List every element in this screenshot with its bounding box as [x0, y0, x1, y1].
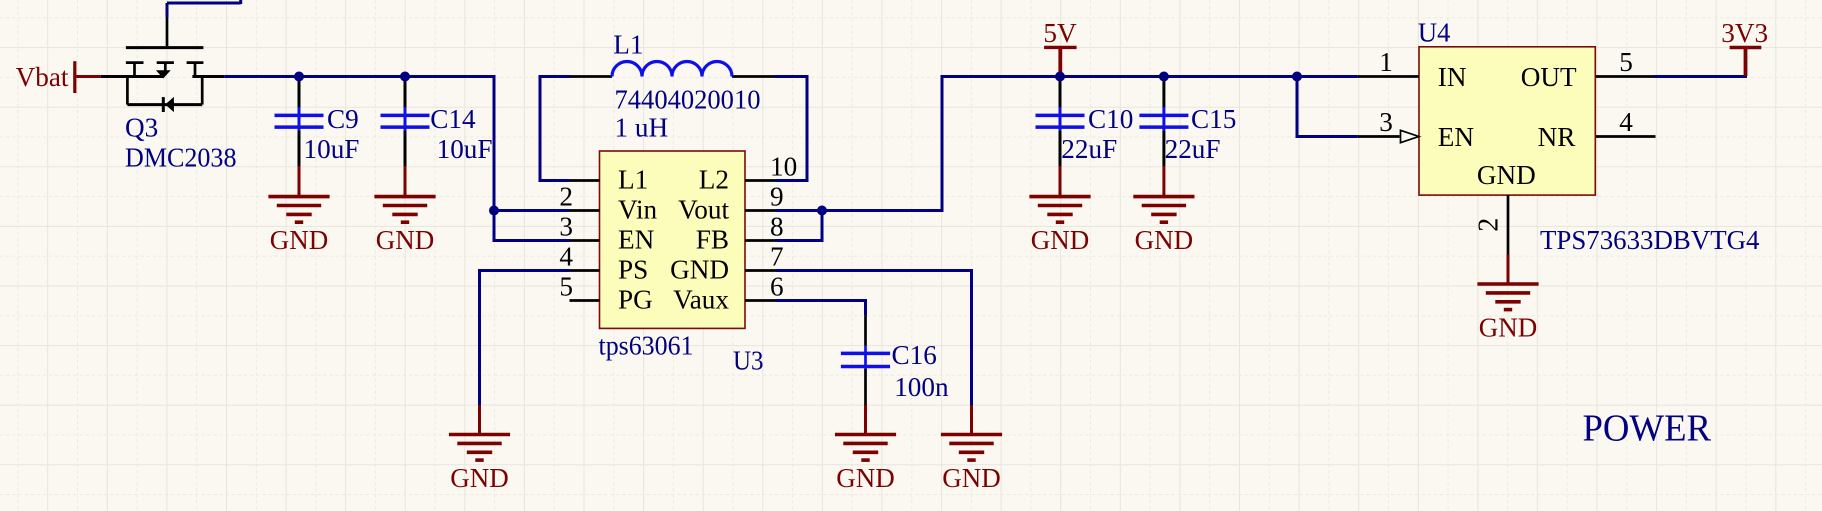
svg-text:5: 5 [1619, 47, 1633, 77]
svg-text:POWER: POWER [1583, 407, 1712, 449]
svg-text:GND: GND [942, 463, 1001, 493]
svg-text:NR: NR [1538, 122, 1577, 152]
svg-text:10uF: 10uF [304, 134, 360, 164]
svg-text:GND: GND [670, 255, 729, 285]
svg-text:C14: C14 [430, 104, 476, 134]
svg-text:3: 3 [559, 212, 573, 242]
svg-text:U4: U4 [1418, 17, 1451, 48]
svg-text:Vbat: Vbat [16, 62, 69, 92]
svg-text:Vin: Vin [618, 195, 658, 225]
svg-text:EN: EN [618, 225, 655, 255]
svg-text:8: 8 [770, 212, 784, 242]
svg-text:4: 4 [559, 242, 573, 272]
svg-text:4: 4 [1619, 107, 1633, 137]
svg-text:TPS73633DBVTG4: TPS73633DBVTG4 [1540, 225, 1760, 255]
svg-text:6: 6 [770, 272, 784, 302]
svg-text:7: 7 [770, 242, 784, 272]
svg-text:1: 1 [1379, 47, 1393, 77]
svg-text:3: 3 [1379, 107, 1393, 137]
svg-text:5: 5 [559, 272, 573, 302]
svg-text:PS: PS [618, 255, 648, 285]
svg-text:9: 9 [770, 182, 784, 212]
svg-text:C15: C15 [1191, 104, 1236, 134]
svg-text:5V: 5V [1043, 18, 1077, 48]
svg-text:GND: GND [450, 463, 509, 493]
svg-text:1 uH: 1 uH [615, 113, 669, 143]
svg-text:2: 2 [1474, 218, 1505, 232]
svg-text:GND: GND [1135, 225, 1194, 255]
svg-text:L1: L1 [613, 30, 643, 60]
svg-text:PG: PG [618, 285, 653, 315]
svg-text:22uF: 22uF [1061, 134, 1117, 164]
svg-text:tps63061: tps63061 [599, 331, 694, 361]
svg-text:Vaux: Vaux [673, 285, 729, 315]
svg-text:U3: U3 [733, 346, 764, 377]
svg-text:GND: GND [270, 225, 329, 255]
svg-text:GND: GND [376, 225, 435, 255]
svg-text:OUT: OUT [1521, 62, 1577, 92]
svg-text:GND: GND [1031, 225, 1090, 255]
svg-text:C9: C9 [327, 104, 359, 134]
svg-text:Q3: Q3 [125, 113, 158, 143]
svg-text:EN: EN [1438, 122, 1475, 152]
svg-text:FB: FB [696, 225, 729, 255]
svg-text:GND: GND [1479, 313, 1538, 343]
svg-text:3V3: 3V3 [1721, 18, 1768, 48]
svg-text:DMC2038: DMC2038 [125, 143, 237, 173]
svg-text:C10: C10 [1088, 104, 1133, 134]
svg-text:IN: IN [1438, 62, 1467, 92]
svg-text:100n: 100n [894, 372, 949, 402]
svg-text:2: 2 [559, 182, 573, 212]
svg-text:22uF: 22uF [1165, 134, 1221, 164]
svg-text:L1: L1 [618, 165, 648, 195]
svg-text:Vout: Vout [678, 195, 729, 225]
svg-text:10uF: 10uF [437, 134, 493, 164]
svg-text:10: 10 [770, 152, 797, 182]
svg-text:GND: GND [1477, 160, 1536, 190]
svg-text:74404020010: 74404020010 [615, 85, 761, 115]
svg-text:L2: L2 [699, 165, 729, 195]
svg-text:C16: C16 [892, 340, 937, 370]
svg-text:GND: GND [836, 463, 895, 493]
